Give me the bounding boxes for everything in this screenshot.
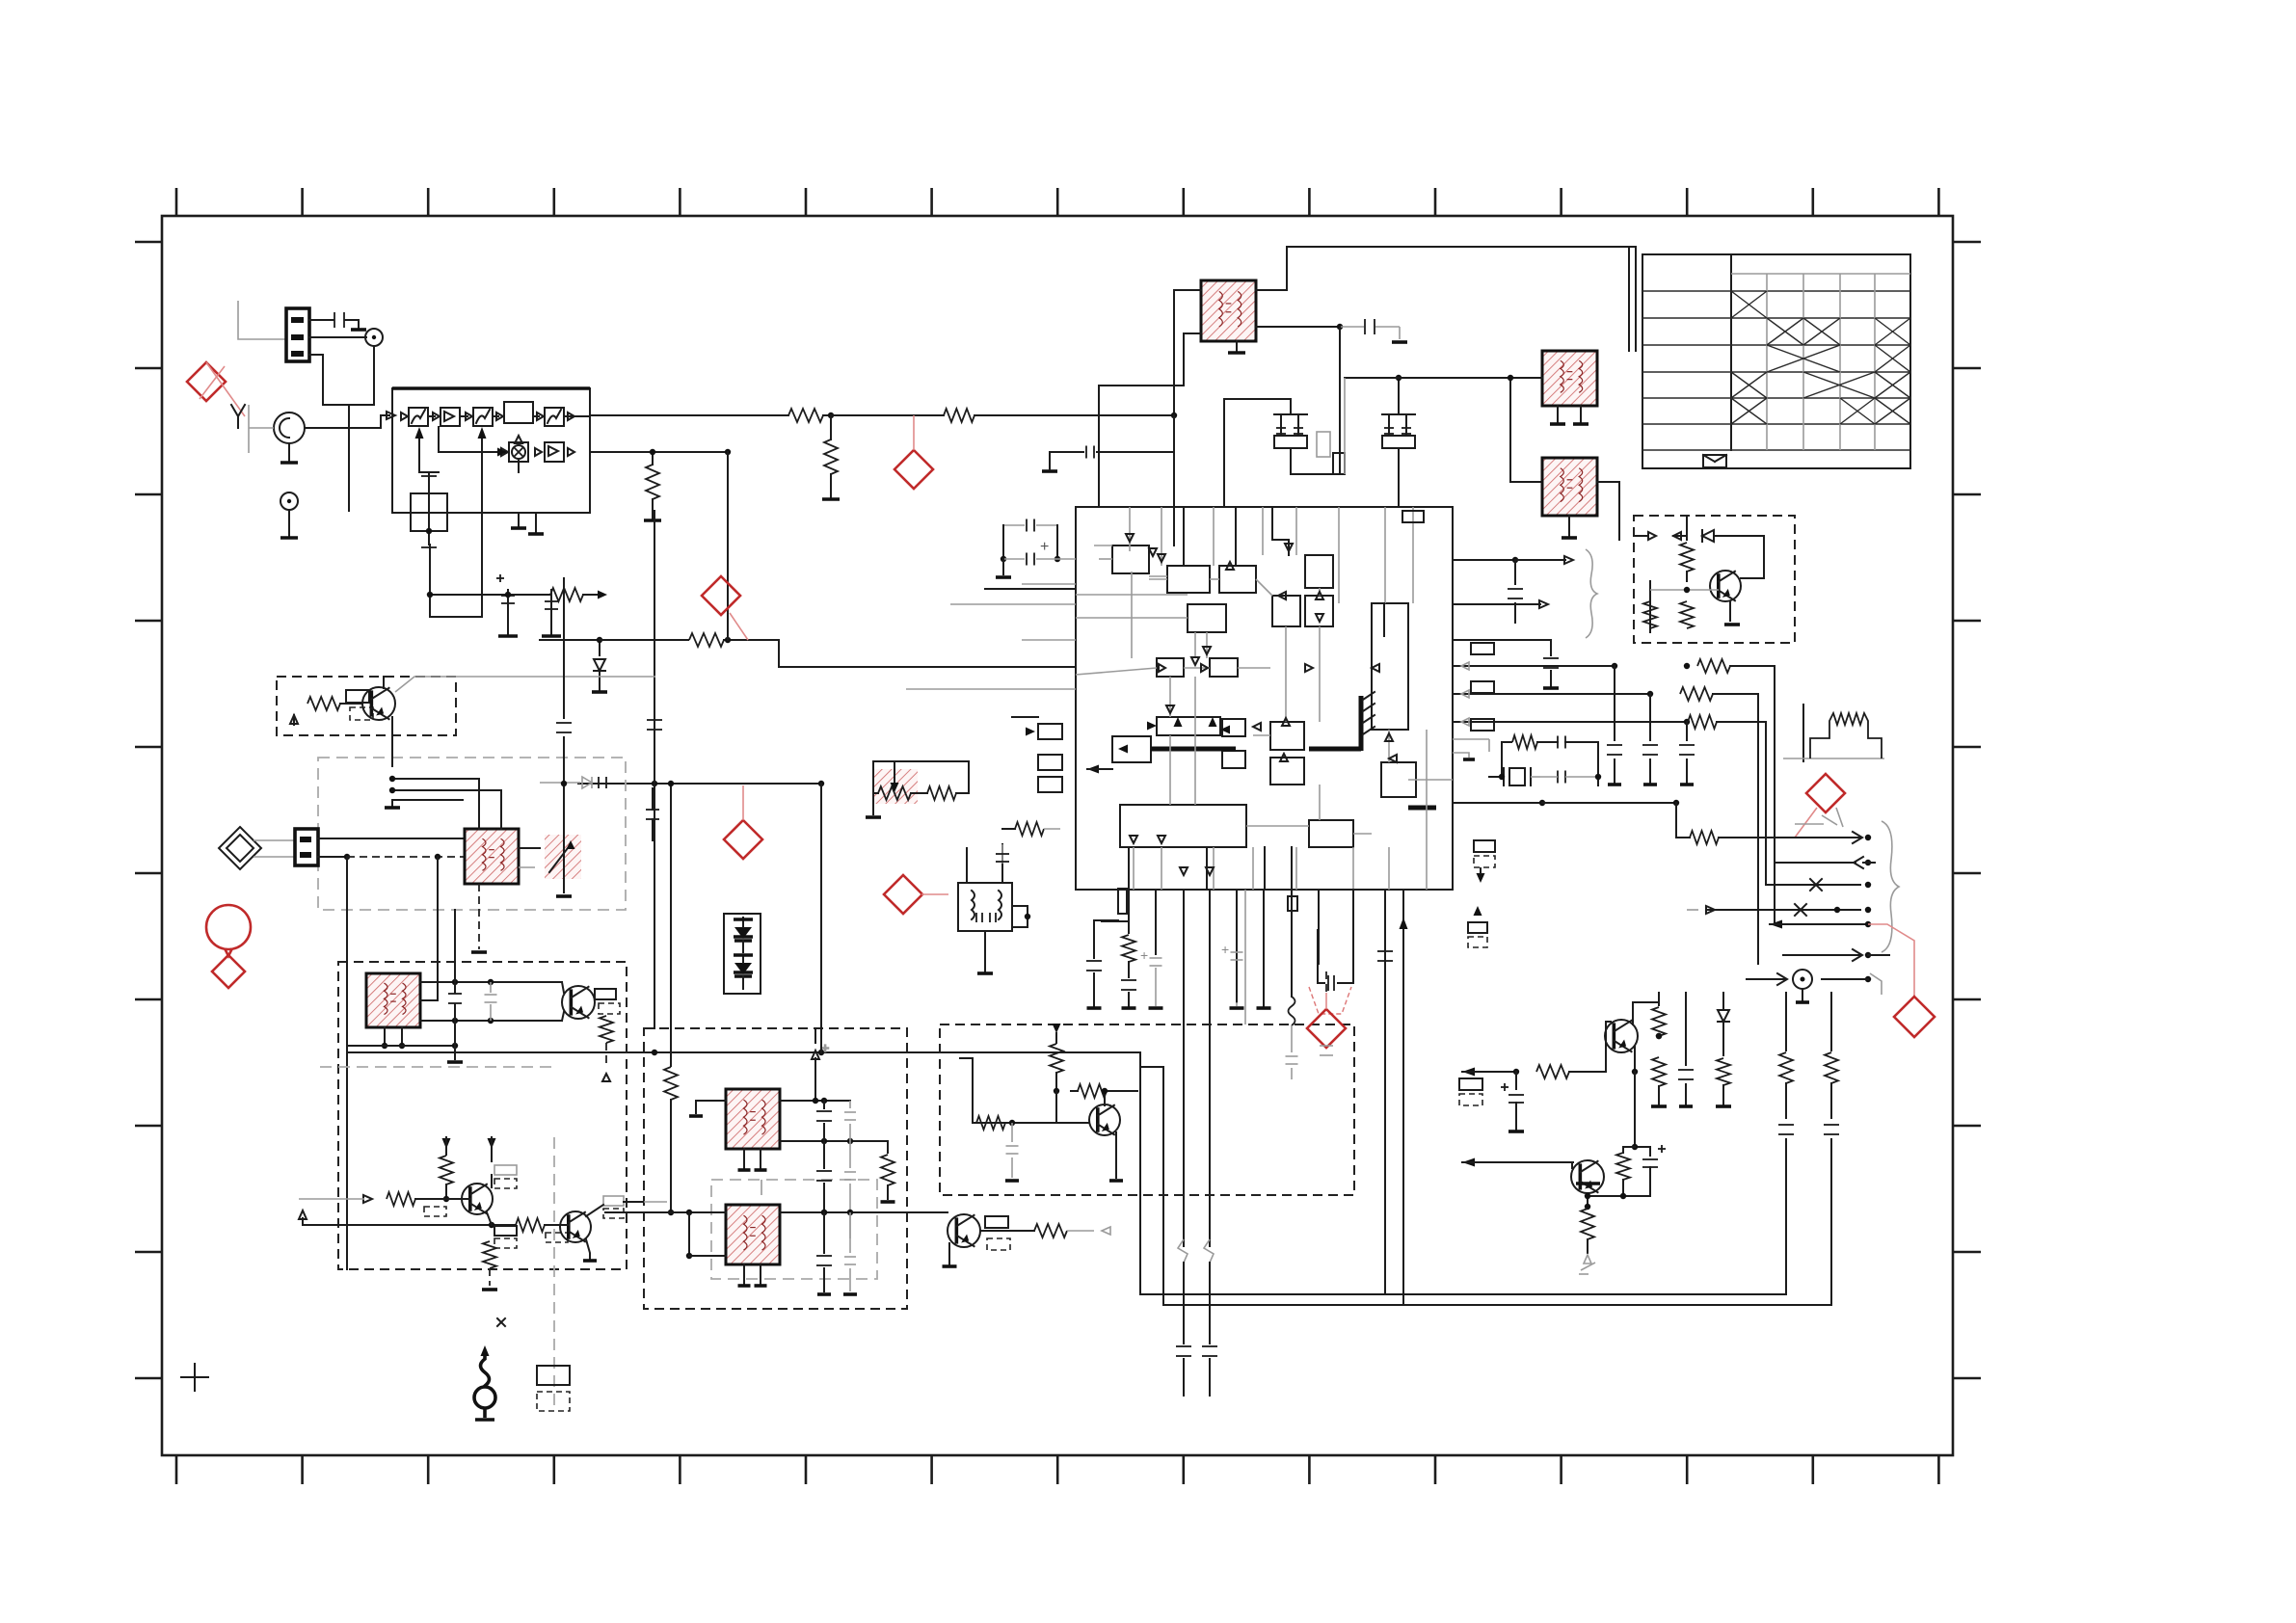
registration cross	[181, 1376, 208, 1378]
dash wire	[347, 856, 465, 858]
T6 pins	[384, 1027, 386, 1046]
wire	[911, 792, 927, 794]
diode cap col	[814, 1028, 816, 1043]
wire	[430, 545, 482, 617]
top and bottom tick marks	[175, 188, 178, 216]
IC thick bus L	[1359, 696, 1364, 751]
T0 center line	[428, 472, 430, 545]
transistor Q5	[1710, 571, 1741, 601]
svg-text:+: +	[1040, 539, 1049, 555]
wire arrow4	[1707, 909, 1860, 911]
ground Q9	[1115, 1132, 1117, 1178]
vert	[1139, 1052, 1141, 1294]
caps under bundle2	[1649, 694, 1651, 740]
cap loop top wire	[1003, 524, 1025, 526]
red transformer T8	[726, 1205, 780, 1264]
ground	[280, 461, 298, 465]
ground x472	[447, 1060, 463, 1064]
cap C8	[1001, 844, 1003, 864]
resonator X2	[1382, 436, 1415, 448]
legend circle	[474, 1387, 495, 1408]
wire low	[688, 1212, 690, 1256]
wire to Q8	[1462, 1158, 1475, 1167]
legend solid box	[537, 1366, 570, 1385]
dashed box tuner-left	[318, 758, 626, 910]
wire	[309, 355, 323, 405]
lo up arrow	[518, 461, 520, 472]
cap pol2	[1649, 1147, 1651, 1156]
junction	[435, 854, 441, 860]
wire T6 bot out	[420, 1020, 562, 1022]
small pads right of IC	[1471, 643, 1494, 654]
table envelope icon	[1703, 455, 1726, 467]
wire	[1634, 1047, 1636, 1072]
resistor	[1688, 715, 1717, 729]
resistor left	[670, 784, 672, 1066]
T5 bottom pin	[984, 931, 986, 971]
resistor right	[887, 1141, 889, 1153]
wire	[780, 1100, 850, 1102]
wire base Q9	[973, 1122, 1089, 1124]
mixer input arrow	[439, 451, 502, 453]
cap loop	[1056, 525, 1058, 559]
transformer box T0	[411, 493, 447, 531]
red transformer T1	[1201, 280, 1256, 341]
transistor Q7	[1605, 1020, 1638, 1052]
wire base Q3	[415, 1198, 470, 1200]
T1 left wire lower	[1099, 333, 1201, 507]
resistor R30	[440, 1156, 453, 1184]
transistor Q9	[1089, 1104, 1120, 1135]
wire	[288, 510, 290, 536]
waveform trace	[1810, 713, 1882, 758]
amp box4	[545, 442, 564, 462]
resistor R12	[824, 439, 838, 474]
T7 pins	[743, 1149, 745, 1168]
pads Q2	[595, 989, 616, 999]
IF transformer T5	[958, 883, 1012, 931]
wire	[1676, 803, 1690, 838]
T5 caps	[975, 913, 977, 922]
varactor D3	[734, 927, 752, 939]
resistor col1	[1658, 993, 1660, 1005]
wire y1092	[347, 1051, 1140, 1053]
grounds dashed	[761, 1180, 762, 1195]
wire top bus	[1256, 247, 1636, 351]
wire Q4 collector right	[586, 1205, 603, 1216]
red transformer T3	[1542, 458, 1597, 516]
wire	[1649, 581, 1651, 598]
wire r2	[1453, 693, 1650, 695]
wire	[724, 639, 728, 641]
wire	[1344, 378, 1346, 474]
resistor R18	[1015, 822, 1044, 836]
small x mark	[497, 1318, 505, 1326]
ground under block	[518, 513, 520, 526]
wire	[1094, 919, 1118, 921]
wire	[1399, 327, 1401, 339]
IC left pin wires	[1022, 583, 1076, 585]
front-end block U1	[392, 388, 590, 513]
wire	[1569, 1071, 1606, 1073]
wire	[1571, 1162, 1573, 1168]
varicap arrow in patch	[549, 844, 571, 872]
cap col2	[1685, 993, 1687, 1065]
cap grey	[646, 809, 659, 811]
wire	[1763, 536, 1765, 578]
ground col x1311	[1257, 1006, 1271, 1010]
red transformer T4	[465, 829, 519, 884]
red transformer T7	[726, 1089, 780, 1149]
wire arrow2	[1775, 862, 1855, 864]
wire right of T4	[519, 847, 540, 849]
ground	[822, 497, 840, 501]
dash mark	[1795, 823, 1824, 825]
transistor Q2	[562, 986, 595, 1019]
wire top	[873, 760, 969, 762]
wire	[545, 1224, 569, 1226]
wire	[1140, 1066, 1163, 1068]
pol cap col x1283	[1231, 951, 1243, 953]
wire	[519, 866, 535, 868]
vertical x360	[346, 857, 348, 1269]
resistor	[1680, 687, 1713, 701]
junction	[725, 449, 731, 455]
resistor R15	[689, 633, 724, 647]
ground	[556, 894, 572, 898]
wire x679 down	[654, 784, 655, 1028]
diode D5	[1702, 530, 1714, 542]
T5 coil left	[972, 891, 974, 919]
mixer box	[509, 442, 528, 462]
bottom L wire 1	[1140, 1293, 1786, 1295]
resistor R17	[927, 786, 956, 800]
ground	[592, 690, 607, 694]
grey angle	[1822, 815, 1837, 825]
connector J2	[295, 829, 318, 865]
wire collector	[1632, 1002, 1634, 1024]
wire	[980, 1230, 1034, 1232]
junction	[1171, 412, 1177, 418]
IC U100 outline	[1076, 507, 1453, 890]
red diamond ref P3	[702, 576, 740, 615]
wire	[563, 761, 565, 784]
wire	[960, 1058, 973, 1123]
wire from T3 right	[1597, 482, 1619, 540]
double diamond	[219, 827, 261, 869]
junction	[389, 776, 395, 782]
pad rect x1340	[1288, 896, 1297, 911]
vertical x454	[437, 857, 439, 1000]
wire arrow6	[1783, 954, 1860, 956]
cap ladder a	[823, 1101, 825, 1108]
pin pad rect	[1118, 889, 1127, 914]
grey diode-cap	[582, 777, 592, 788]
resistor R11	[944, 409, 974, 422]
T1 left wire upper	[1174, 290, 1201, 415]
wire	[1453, 738, 1489, 740]
table header line	[1731, 273, 1910, 275]
wire corner to IC	[728, 640, 1076, 667]
red diamond ref P6	[1806, 774, 1845, 812]
grey brace	[1882, 821, 1899, 952]
wire long left	[540, 639, 600, 641]
connector J1	[286, 308, 309, 361]
vertical from T1 node	[1291, 327, 1340, 474]
resistor right of Q9	[1078, 1084, 1107, 1098]
cap	[1320, 1045, 1333, 1047]
IC bus hatch	[1363, 692, 1375, 700]
ground	[1729, 602, 1731, 621]
open arrows row2	[501, 448, 508, 456]
wire	[1453, 640, 1551, 655]
resistor R16	[878, 786, 911, 800]
table frame	[1642, 254, 1910, 468]
junction	[652, 1050, 657, 1055]
wire	[780, 1211, 948, 1213]
waveform axes	[1802, 705, 1804, 761]
wire right of T5	[1012, 906, 1028, 927]
loop filter	[1502, 742, 1511, 773]
wire	[1224, 399, 1291, 507]
T0 cap bottom	[421, 546, 437, 548]
IC thick bus h1	[1151, 747, 1236, 752]
border frame	[162, 216, 1953, 1455]
red tail	[1795, 808, 1817, 838]
table diagonal marks	[1731, 291, 1767, 318]
RF input socket	[274, 412, 305, 443]
cap L at IC top	[1042, 469, 1057, 473]
red diamond ref P4	[724, 820, 762, 859]
resistor	[1697, 659, 1730, 673]
cap2	[1557, 771, 1559, 784]
wire	[309, 336, 366, 338]
wire	[1635, 1146, 1650, 1148]
wire	[1802, 989, 1803, 1000]
grey wing	[1870, 973, 1882, 995]
cap ladder b	[849, 1101, 851, 1108]
terminal circle	[1793, 970, 1812, 989]
cap C10	[1340, 326, 1364, 328]
pad Q4b	[546, 1233, 568, 1242]
wire	[1649, 598, 1651, 632]
red diamond ref P2	[894, 450, 933, 489]
resistor base Q9	[976, 1116, 1005, 1130]
res cap pair	[1622, 1147, 1624, 1153]
red tail	[1325, 993, 1327, 1009]
resistor below Q8	[1587, 1193, 1589, 1207]
wire	[1453, 603, 1540, 605]
cap col x1135	[1093, 920, 1095, 958]
wire Q3 collector	[491, 1175, 493, 1187]
IC thick bus h2	[1309, 747, 1361, 752]
red stub	[913, 415, 915, 450]
bottom L wire 2	[1163, 1304, 1831, 1306]
ground	[471, 950, 487, 954]
arrow into resistor	[894, 761, 895, 786]
wire to Q7	[1462, 1068, 1475, 1077]
wire	[1398, 378, 1400, 414]
resistor	[1680, 601, 1694, 628]
resistor R14	[550, 588, 583, 601]
filter box	[504, 402, 533, 423]
wire emitter	[391, 717, 393, 766]
wire	[830, 474, 832, 497]
wire collector up	[383, 677, 385, 688]
resistor R10	[788, 409, 823, 422]
vertical	[563, 578, 565, 675]
wire emitter Q4	[586, 1239, 590, 1259]
tall column 1	[1785, 993, 1787, 1051]
wire	[1067, 1230, 1094, 1232]
caps under bundle	[1614, 666, 1615, 740]
front-end output wire upper	[590, 414, 788, 416]
resistor in if-amp	[1053, 1024, 1061, 1033]
IC thick stub	[1408, 806, 1436, 811]
cap ladder c	[823, 1141, 825, 1168]
agc amp stage box	[409, 408, 428, 426]
T4 bottom dashes	[478, 884, 480, 949]
junction	[1025, 914, 1030, 919]
wire	[348, 405, 350, 453]
varactor block	[724, 914, 761, 994]
brace	[1586, 549, 1597, 638]
wire	[1453, 559, 1515, 561]
transistor Q4	[560, 1211, 591, 1242]
dashed box band	[338, 962, 627, 1269]
diode D2	[599, 640, 601, 655]
wire r1	[1453, 665, 1615, 667]
wire arrow7	[1747, 978, 1785, 980]
up arrow into stage3 tall	[481, 431, 483, 617]
wire	[419, 471, 439, 473]
IC left small pads	[1038, 724, 1062, 739]
vertical x852	[820, 784, 822, 1024]
IC internal function blocks	[1112, 545, 1149, 573]
resistor col x1171	[1122, 935, 1135, 962]
resistor below Q2	[600, 1016, 613, 1043]
arrow dn	[442, 1138, 451, 1149]
open arrow in	[363, 1195, 372, 1203]
resistor R13 on lower branch	[646, 465, 659, 499]
arrow	[1149, 548, 1157, 556]
legend ground	[475, 1418, 494, 1422]
pad pair B	[1468, 922, 1487, 933]
pad pair A	[1474, 840, 1495, 852]
svg-text:+: +	[1221, 942, 1229, 957]
T5 wire top left	[966, 848, 968, 883]
grey dash bottom	[320, 1066, 554, 1068]
junction	[1684, 587, 1690, 593]
grey dashdot box	[711, 1180, 877, 1279]
grey dashdot vertical	[553, 1137, 555, 1407]
legend dashed box	[537, 1392, 570, 1411]
bar	[498, 634, 518, 638]
wire input to front-end	[305, 415, 389, 428]
junction	[1499, 774, 1505, 780]
ground stub	[1453, 753, 1469, 758]
T1 right wire	[1256, 326, 1340, 328]
dashed box if-amp	[940, 1024, 1354, 1195]
red link	[1868, 924, 1914, 996]
ground	[1392, 340, 1407, 344]
crystal Y1	[1509, 768, 1525, 785]
vertical link	[727, 452, 729, 640]
IC arrows	[1174, 717, 1183, 727]
T5 coil right	[999, 891, 1001, 919]
wire	[823, 414, 831, 416]
wire T6 top out	[420, 981, 562, 983]
resistor under	[483, 1241, 496, 1268]
cap ladder e	[823, 1212, 825, 1253]
wire	[1290, 448, 1292, 474]
wire bus	[644, 1201, 667, 1203]
dashed box bias	[1634, 516, 1795, 643]
up arrow into stage1	[418, 431, 420, 472]
antenna symbol	[481, 1345, 490, 1356]
wire	[652, 452, 654, 465]
red funnel	[1309, 987, 1351, 1014]
red transformer T6	[366, 973, 420, 1027]
wire	[696, 1101, 726, 1113]
cap link x1404	[1338, 975, 1353, 983]
long wire	[1102, 920, 1129, 922]
ground	[351, 328, 366, 332]
wire grey stub	[238, 301, 286, 339]
wire	[872, 793, 874, 814]
plus sign	[496, 577, 504, 579]
open arrow	[387, 412, 395, 419]
wire	[873, 761, 878, 793]
cap	[1557, 736, 1559, 749]
resistor	[307, 697, 340, 710]
resistor R32	[516, 1218, 545, 1232]
cap in if-amp	[1011, 1123, 1013, 1142]
red diamond ref P9	[1307, 1009, 1346, 1048]
wire	[373, 346, 375, 405]
vert2	[1162, 1067, 1164, 1305]
amp stage box	[441, 408, 460, 426]
transistor Q8	[1571, 1160, 1604, 1193]
cap between	[448, 993, 462, 995]
arrow into pad	[1012, 716, 1038, 718]
wire pin1	[318, 838, 465, 839]
grey tri	[1584, 1255, 1591, 1264]
wire	[1713, 694, 1758, 964]
pads	[1459, 1078, 1482, 1090]
red circle sym	[206, 905, 251, 949]
wire	[249, 427, 274, 429]
vertical drop from R10 node	[830, 415, 832, 439]
pad col x510	[494, 1226, 517, 1236]
transistor Q6	[948, 1214, 980, 1247]
T3 bottom pin	[1568, 516, 1570, 536]
wire	[309, 319, 334, 321]
transistor Q3	[462, 1184, 493, 1214]
svg-text:+: +	[1140, 947, 1148, 963]
red tail	[921, 893, 948, 895]
diode col3	[1722, 993, 1724, 1008]
IC bottom pins	[1128, 890, 1130, 933]
dashed box top-left	[277, 677, 456, 735]
wire down	[1510, 378, 1542, 482]
wire	[323, 404, 374, 406]
cap pol	[1515, 1072, 1517, 1089]
wire	[1290, 448, 1292, 474]
cap	[1543, 657, 1559, 659]
wire	[254, 839, 295, 841]
table rows	[1642, 290, 1910, 292]
